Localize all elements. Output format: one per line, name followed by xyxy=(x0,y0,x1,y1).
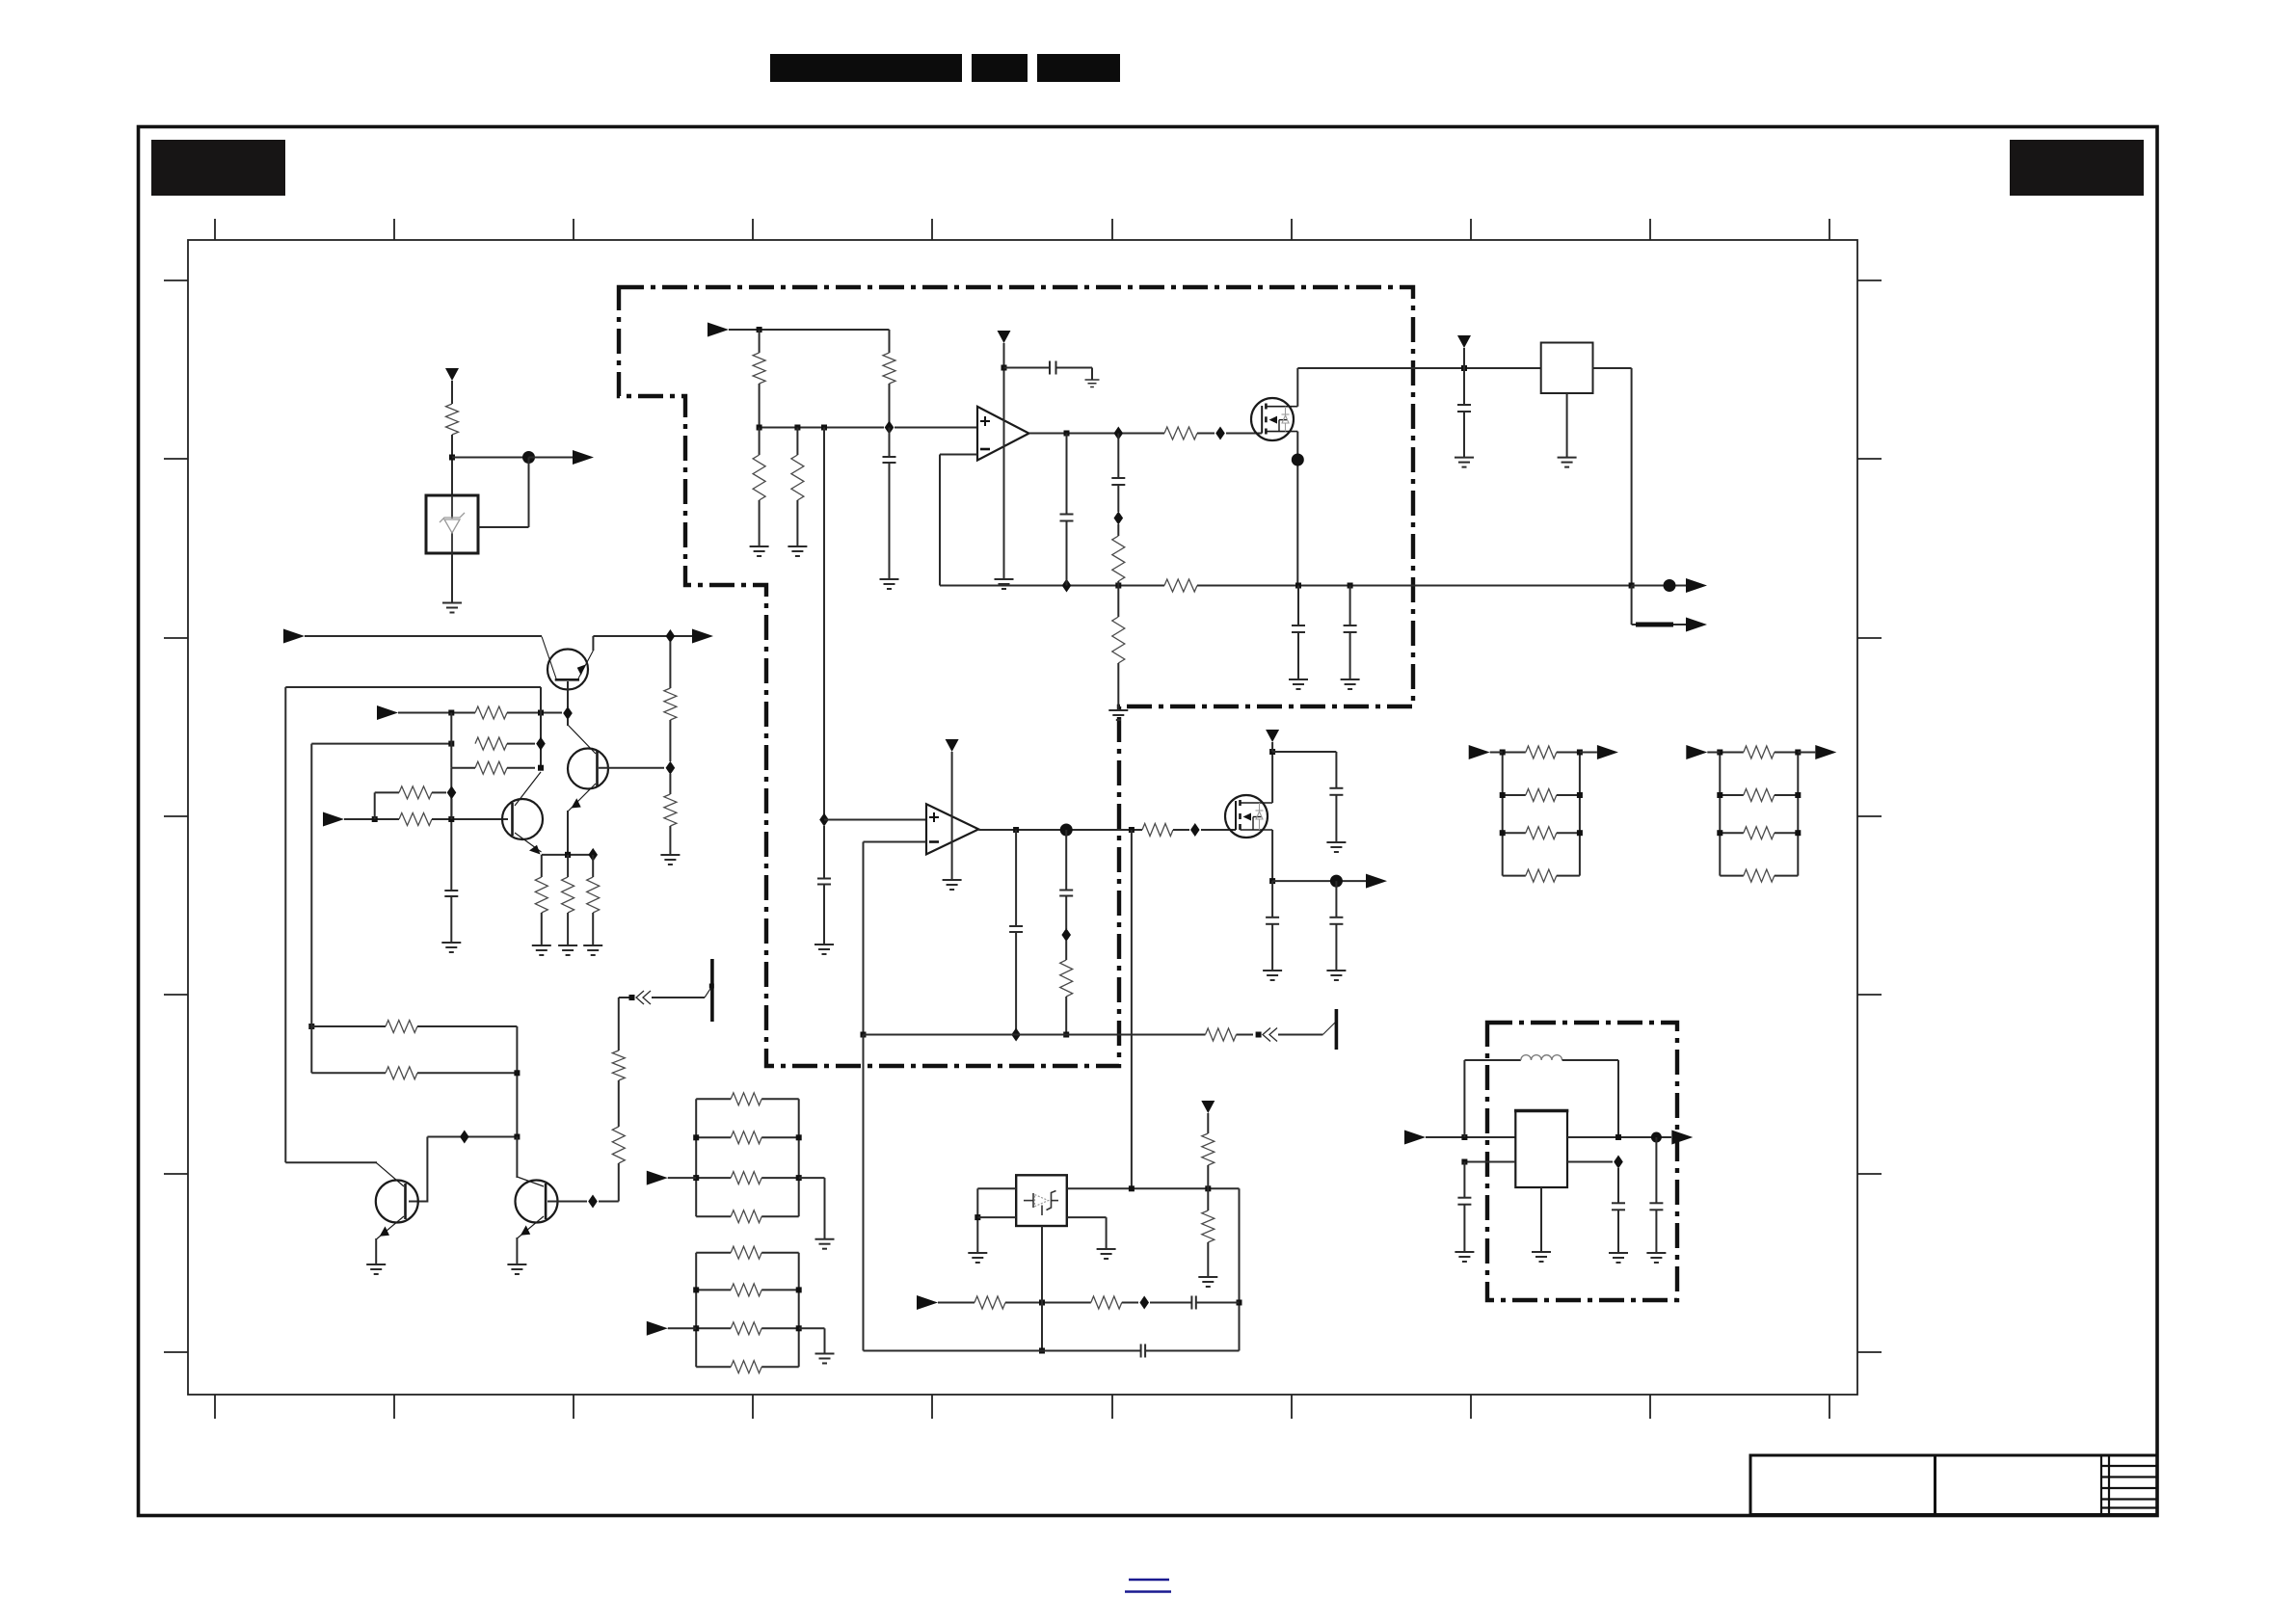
wire xyxy=(761,1366,799,1368)
resistor R30 xyxy=(1091,1296,1122,1309)
capacitor C19 xyxy=(1649,1203,1663,1210)
transistor Q3 xyxy=(502,772,543,852)
resistor R10 xyxy=(475,706,507,719)
junction xyxy=(1064,431,1070,437)
off-board chevrons xyxy=(636,991,651,1004)
resistor R22 xyxy=(612,1127,625,1163)
junction xyxy=(514,1070,520,1076)
capacitor C17 xyxy=(1457,1198,1471,1205)
wire xyxy=(669,720,671,761)
capacitor C4 xyxy=(1111,478,1125,485)
blue underline mark 2 xyxy=(1125,1590,1171,1592)
op-amp U1 xyxy=(977,407,1029,461)
junction xyxy=(693,1325,699,1331)
wire xyxy=(592,913,594,945)
junction xyxy=(693,1134,699,1140)
wire xyxy=(1173,829,1189,831)
wire (Q1 base) xyxy=(567,681,569,707)
wire xyxy=(1145,1350,1239,1352)
wire (Q4 emitter) xyxy=(375,1238,377,1264)
ground xyxy=(814,945,834,954)
wire xyxy=(668,1327,696,1329)
resistor R18 xyxy=(562,877,574,913)
wire xyxy=(889,384,891,428)
junction xyxy=(1039,1300,1045,1306)
junction xyxy=(565,852,571,858)
wire (Q2 base) xyxy=(599,767,664,769)
wire xyxy=(1503,832,1526,834)
output arrow connector xyxy=(1686,578,1707,593)
wire xyxy=(311,743,451,745)
wire xyxy=(541,855,543,877)
capacitor C14 xyxy=(1059,891,1073,896)
junction xyxy=(794,425,800,431)
wire xyxy=(1091,368,1093,381)
wire xyxy=(1066,521,1068,586)
wire xyxy=(450,768,452,891)
input arrow connector xyxy=(283,629,305,644)
capacitor C13 xyxy=(1329,918,1343,924)
wire xyxy=(432,818,508,820)
junction xyxy=(1295,583,1301,589)
junction diamond xyxy=(666,629,676,643)
wire xyxy=(1150,1302,1191,1304)
resistor R14 xyxy=(664,794,677,826)
shunt regulator U3 symbol xyxy=(1024,1191,1058,1216)
wire xyxy=(1557,875,1580,877)
MOSFET M1 xyxy=(1251,398,1297,440)
junction xyxy=(538,710,544,716)
wire xyxy=(567,855,569,877)
inductor L1 xyxy=(1521,1055,1562,1060)
wire xyxy=(1271,881,1273,918)
wire (left loop top) xyxy=(285,686,541,688)
wire xyxy=(1297,632,1299,679)
junction xyxy=(1205,1185,1211,1191)
wire xyxy=(451,767,475,769)
junction xyxy=(796,1287,802,1292)
wire xyxy=(285,1161,377,1163)
resistor R26 xyxy=(1206,1028,1237,1041)
redacted net label segment xyxy=(1636,623,1673,627)
resistor R35 xyxy=(731,1246,761,1259)
output arrow connector xyxy=(1597,745,1618,759)
wire xyxy=(451,435,453,495)
resistor R46 xyxy=(1744,869,1775,882)
resistor R41 xyxy=(1526,827,1557,839)
wire (U1 supply/gnd pin) xyxy=(1003,343,1005,579)
wire xyxy=(567,913,569,945)
ground xyxy=(1532,1252,1551,1262)
wire xyxy=(1335,924,1337,971)
wire xyxy=(1566,393,1568,458)
wire xyxy=(696,1327,731,1329)
page outer border frame xyxy=(139,127,2158,1516)
wire xyxy=(1463,348,1465,368)
wire (bottom row) xyxy=(864,1350,1141,1352)
frame tick marks xyxy=(164,219,1882,1419)
wire (Q1 emitter bend) xyxy=(592,636,594,651)
resistor R5 xyxy=(791,455,804,500)
junction xyxy=(974,1214,980,1220)
resistor R19 xyxy=(587,877,600,913)
shunt regulator U3 triangle xyxy=(1035,1195,1049,1207)
node dot xyxy=(1651,1132,1662,1143)
resistor R17 xyxy=(535,877,547,913)
resistor R45 xyxy=(1744,827,1775,839)
wire xyxy=(1503,752,1526,754)
node dot xyxy=(522,451,535,464)
wire (M1 source) xyxy=(1296,432,1298,586)
junction xyxy=(1795,792,1801,798)
junction xyxy=(1615,1134,1621,1140)
wire xyxy=(1207,1242,1209,1277)
junction diamond xyxy=(1215,427,1225,440)
wire (bank right bar) xyxy=(798,1253,800,1368)
junction xyxy=(1063,1032,1069,1038)
wire xyxy=(1720,794,1744,796)
wire xyxy=(1463,1205,1465,1252)
resistor R13 xyxy=(664,688,677,720)
wire xyxy=(398,712,475,714)
resistor R11 xyxy=(475,737,507,750)
wire xyxy=(1131,830,1133,1188)
ground xyxy=(1097,1249,1116,1259)
junction xyxy=(1461,1159,1467,1165)
junction xyxy=(448,741,454,747)
output arrow connector xyxy=(1686,618,1707,632)
op-amp U1 - sign xyxy=(980,448,990,451)
inner drawing frame xyxy=(188,240,1857,1395)
junction xyxy=(538,765,544,771)
wire xyxy=(669,642,671,688)
wire xyxy=(541,913,543,945)
wire xyxy=(1297,586,1299,626)
wire xyxy=(976,1188,978,1253)
capacitor C5 xyxy=(1457,405,1471,412)
wire xyxy=(619,997,629,998)
wire xyxy=(1463,1162,1465,1198)
wire xyxy=(824,1328,826,1353)
resistor R28 xyxy=(1202,1211,1215,1242)
resistor R43 xyxy=(1744,746,1775,758)
wire (angled lead) xyxy=(1322,1022,1336,1035)
ground xyxy=(968,1253,987,1263)
junction xyxy=(1256,1032,1262,1038)
ground xyxy=(1646,1253,1666,1263)
transistor Q3 arrow xyxy=(529,845,541,855)
wire xyxy=(1720,832,1744,834)
blue underline mark 1 xyxy=(1129,1579,1169,1581)
resistor R6 (gate) xyxy=(1164,427,1197,439)
wire xyxy=(1207,1165,1209,1188)
wire xyxy=(507,712,562,714)
wire xyxy=(1067,1216,1107,1218)
ground xyxy=(507,1264,526,1274)
junction xyxy=(1115,583,1121,589)
wire (bank left bar) xyxy=(695,1099,697,1216)
wire xyxy=(529,457,574,459)
wire (through D1) xyxy=(451,495,453,553)
resistor R39 xyxy=(1526,746,1557,758)
optocoupler U3 box xyxy=(1016,1175,1067,1226)
ground xyxy=(532,945,551,955)
resistor R31 xyxy=(731,1093,761,1105)
wire xyxy=(1004,367,1051,369)
junction xyxy=(565,852,571,858)
wire xyxy=(1335,752,1337,788)
wire xyxy=(1226,433,1262,435)
wire xyxy=(863,1035,865,1351)
junction xyxy=(1461,365,1467,371)
resistor R15 xyxy=(399,813,432,826)
wire xyxy=(1562,1059,1618,1061)
ground xyxy=(558,945,577,955)
junction xyxy=(449,455,455,461)
capacitor C2 xyxy=(883,457,896,463)
junction xyxy=(1500,830,1506,836)
input arrow connector xyxy=(323,812,344,827)
output arrow connector xyxy=(1366,874,1387,889)
resistor R24 (gate) xyxy=(1142,824,1173,837)
junction xyxy=(629,995,635,1000)
regulator U4 box xyxy=(1514,1111,1568,1188)
ground xyxy=(1198,1277,1217,1287)
capacitor C16 xyxy=(1141,1344,1146,1358)
wire xyxy=(889,463,891,579)
wire xyxy=(1197,433,1215,435)
wire xyxy=(1065,830,1067,891)
wire xyxy=(1567,1161,1613,1163)
wire xyxy=(1271,924,1273,971)
node dot xyxy=(1330,875,1343,888)
resistor R2 xyxy=(753,353,765,384)
junction xyxy=(1577,792,1583,798)
wire xyxy=(478,526,529,528)
wire xyxy=(417,1025,517,1027)
wire xyxy=(1503,875,1526,877)
wire (bank right bar) xyxy=(798,1099,800,1216)
junction diamond xyxy=(563,706,573,720)
wire xyxy=(824,1178,826,1239)
wire xyxy=(450,713,452,768)
wire xyxy=(1117,586,1119,618)
wire xyxy=(1117,663,1119,710)
wire (bank right bar) xyxy=(1579,753,1581,876)
title block revision grid xyxy=(2101,1455,2157,1515)
output arrow connector xyxy=(573,450,594,465)
wire (Q5 emitter) xyxy=(516,1237,518,1264)
ground xyxy=(995,579,1014,589)
wire xyxy=(1593,367,1632,369)
wire (U3 cathode) xyxy=(1041,1226,1043,1351)
transistor Q4 xyxy=(376,1162,418,1239)
wire xyxy=(1056,367,1093,369)
resistor R25 xyxy=(1060,960,1073,997)
resistor R34 xyxy=(731,1211,761,1223)
junction diamond xyxy=(588,848,598,862)
wire xyxy=(1271,742,1273,752)
wire (+ input) xyxy=(824,819,926,821)
junction xyxy=(1577,750,1583,756)
wire xyxy=(450,896,452,943)
wire xyxy=(889,428,891,458)
transistor Q4 arrow xyxy=(380,1226,389,1236)
input arrow connector xyxy=(377,705,398,720)
wire xyxy=(618,1163,620,1202)
wire (to op-amp2 +) xyxy=(823,428,825,820)
wire (feedback row) xyxy=(864,1034,1206,1036)
wire xyxy=(427,1136,517,1138)
wire xyxy=(1066,434,1068,515)
wire xyxy=(796,428,798,456)
wire xyxy=(516,1026,518,1137)
junction xyxy=(1795,830,1801,836)
wire xyxy=(374,792,376,819)
resistor R29 xyxy=(974,1296,1005,1309)
junction xyxy=(514,1134,520,1140)
wire xyxy=(977,1216,1016,1218)
wire xyxy=(696,1177,731,1179)
wire xyxy=(823,826,825,879)
wire (Q2 emitter) xyxy=(567,811,569,852)
wire (right drop) xyxy=(1239,1188,1241,1350)
wire xyxy=(375,791,399,793)
wire xyxy=(451,381,453,404)
junction xyxy=(1237,1300,1242,1306)
wire xyxy=(759,384,761,428)
junction xyxy=(1500,792,1506,798)
junction xyxy=(757,327,762,333)
MOSFET M2 body diode xyxy=(1256,803,1264,830)
ground xyxy=(880,579,899,589)
wire xyxy=(1464,1059,1520,1061)
input arrow connector xyxy=(1469,745,1490,759)
wire xyxy=(1720,752,1744,754)
wire xyxy=(1632,624,1686,625)
wire xyxy=(451,553,453,603)
ground xyxy=(1085,380,1100,387)
ground xyxy=(441,943,461,952)
transistor Q5 xyxy=(516,1177,558,1238)
wire xyxy=(1540,1187,1542,1252)
input arrow connector xyxy=(1686,745,1707,759)
wire xyxy=(1207,1188,1209,1211)
wire xyxy=(761,1177,799,1179)
ground xyxy=(660,855,680,865)
wire (output row) xyxy=(1272,880,1366,882)
wire xyxy=(1463,368,1465,405)
wire xyxy=(761,1327,799,1329)
capacitor C6 xyxy=(1292,625,1305,632)
transistor Q2 xyxy=(568,725,608,811)
wire xyxy=(1065,997,1067,1035)
resistor R38 xyxy=(731,1361,761,1373)
wire xyxy=(669,774,671,794)
resistor R23 xyxy=(612,1051,625,1080)
wire xyxy=(1557,794,1580,796)
wire xyxy=(1617,1210,1619,1253)
junction xyxy=(821,425,827,431)
wire xyxy=(668,1177,696,1179)
resistor R3 xyxy=(883,353,895,384)
wire xyxy=(1015,830,1017,926)
wire (U2 output) xyxy=(978,829,1142,831)
wire (top row) xyxy=(1067,1187,1240,1189)
redacted page title bar 1 xyxy=(770,54,962,82)
node dot xyxy=(1664,579,1676,592)
wire xyxy=(1775,752,1799,754)
capacitor C10 xyxy=(1009,926,1023,932)
resistor R33 xyxy=(731,1172,761,1184)
ground xyxy=(1326,971,1346,980)
op-amp U2 - sign xyxy=(929,840,939,843)
transistor Q1 arrow xyxy=(577,665,586,676)
wire (U4 adj row) xyxy=(1464,1161,1515,1163)
redacted block top-left xyxy=(151,140,285,196)
junction diamond xyxy=(536,737,546,751)
wire xyxy=(1015,932,1017,1035)
redacted block top-right xyxy=(2010,140,2144,196)
wire (Q2 collector) xyxy=(567,719,569,726)
output arrow connector xyxy=(1815,745,1836,759)
junction xyxy=(308,1024,314,1029)
ground xyxy=(583,945,602,955)
ground xyxy=(1558,458,1577,467)
junction xyxy=(1269,878,1275,884)
ground xyxy=(1455,1252,1474,1262)
junction xyxy=(757,425,762,431)
junction xyxy=(796,1134,802,1140)
wire xyxy=(1557,752,1580,754)
wire xyxy=(759,428,761,456)
wire xyxy=(652,997,705,998)
capacitor C15 xyxy=(1191,1296,1195,1310)
connector box J1 xyxy=(1541,343,1593,394)
ground xyxy=(1455,458,1474,467)
wire xyxy=(1655,1210,1657,1253)
resistor R21 xyxy=(386,1067,417,1079)
junction xyxy=(1129,827,1135,833)
wire (bank right bar) xyxy=(1797,753,1799,876)
wire xyxy=(696,1215,731,1217)
wire xyxy=(696,1252,731,1254)
wire xyxy=(669,826,671,855)
wire xyxy=(1005,1302,1091,1304)
capacitor C9 xyxy=(817,879,831,885)
op-amp U2 xyxy=(926,804,978,854)
resistor R44 xyxy=(1744,789,1775,802)
resistor R36 xyxy=(731,1284,761,1296)
wire xyxy=(889,330,891,353)
junction xyxy=(693,1287,699,1292)
wire xyxy=(1632,585,1686,587)
wire xyxy=(1207,1113,1209,1133)
junction xyxy=(1629,583,1635,589)
wire xyxy=(1707,752,1720,754)
junction xyxy=(1717,792,1722,798)
ground xyxy=(1609,1253,1628,1263)
wire xyxy=(1503,794,1526,796)
wire (far left drop) xyxy=(284,687,286,1162)
wire xyxy=(1117,581,1119,586)
wire xyxy=(507,743,535,745)
wire xyxy=(1106,1217,1108,1249)
wire xyxy=(1775,875,1799,877)
wire xyxy=(1065,941,1067,960)
junction diamond xyxy=(1062,579,1072,593)
junction diamond xyxy=(885,421,894,435)
